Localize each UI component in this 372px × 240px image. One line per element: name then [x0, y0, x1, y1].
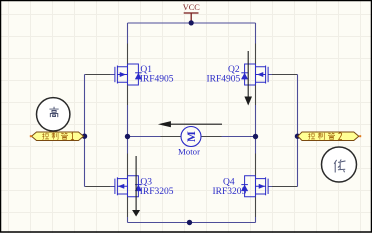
svg-text:Q2: Q2: [228, 65, 240, 75]
svg-text:Q4: Q4: [223, 177, 235, 187]
svg-text:IRF3205: IRF3205: [140, 187, 174, 197]
svg-text:VCC: VCC: [183, 3, 201, 12]
svg-text:IRF4905: IRF4905: [140, 75, 174, 85]
svg-text:IRF3205: IRF3205: [213, 187, 247, 197]
svg-text:IRF4905: IRF4905: [207, 75, 241, 85]
svg-text:M: M: [186, 131, 198, 142]
svg-text:Q3: Q3: [140, 177, 152, 187]
svg-text:Motor: Motor: [178, 146, 200, 156]
svg-text:Q1: Q1: [140, 65, 152, 75]
